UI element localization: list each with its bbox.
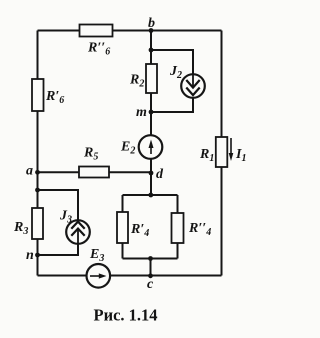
wire left rail bbox=[37, 31, 39, 276]
svg-text:R5: R5 bbox=[83, 146, 98, 163]
current arrow I1 bbox=[229, 138, 234, 161]
wire m to d bbox=[150, 112, 152, 173]
svg-text:b: b bbox=[148, 16, 155, 31]
junction R4 top bbox=[148, 193, 153, 198]
resistor R'6 bbox=[32, 79, 44, 111]
node n junction dot bbox=[35, 253, 40, 258]
node d junction dot bbox=[149, 171, 154, 176]
wire J2 branch loop bbox=[151, 50, 193, 112]
wire a to d bbox=[38, 171, 152, 173]
node c junction dot bbox=[148, 273, 153, 278]
svg-text:R1: R1 bbox=[199, 147, 214, 164]
junction R4 bottom bbox=[148, 256, 153, 261]
svg-text:R′′6: R′′6 bbox=[87, 41, 110, 58]
svg-text:J3: J3 bbox=[59, 209, 72, 226]
wire right rail bbox=[221, 31, 223, 276]
svg-text:E3: E3 bbox=[89, 247, 104, 264]
source J2 circle bbox=[181, 74, 205, 98]
resistor R'4 bbox=[117, 212, 128, 243]
node a junction dot bbox=[35, 170, 40, 175]
svg-text:c: c bbox=[147, 277, 154, 292]
resistor R3 bbox=[32, 208, 43, 239]
resistor R''6 bbox=[80, 25, 113, 37]
svg-text:d: d bbox=[156, 167, 164, 182]
wire J3 branch loop bbox=[38, 190, 79, 255]
svg-text:R3: R3 bbox=[13, 220, 28, 237]
source E3 arrow bbox=[90, 273, 107, 278]
resistor R1 bbox=[216, 137, 228, 167]
source E2 circle bbox=[139, 135, 163, 159]
node b junction dot bbox=[149, 28, 154, 33]
source E3 circle bbox=[87, 264, 111, 288]
svg-text:R′′4: R′′4 bbox=[188, 221, 211, 238]
source J2 chevrons bbox=[186, 50, 199, 95]
wire R4 right branch bbox=[177, 195, 179, 259]
svg-text:m: m bbox=[136, 105, 147, 120]
wire bottom rail bbox=[38, 275, 222, 277]
wire top b rail bbox=[38, 30, 222, 32]
svg-text:J2: J2 bbox=[169, 64, 182, 81]
wire to node c bbox=[150, 259, 152, 276]
resistor R''4 bbox=[172, 213, 184, 243]
wire R4 left branch bbox=[122, 195, 124, 259]
source E2 arrow bbox=[149, 140, 154, 155]
svg-text:R2: R2 bbox=[129, 73, 144, 90]
node m junction dot bbox=[149, 110, 154, 115]
svg-text:E2: E2 bbox=[120, 140, 135, 157]
source J3 chevrons bbox=[71, 222, 84, 244]
svg-text:a: a bbox=[26, 164, 33, 179]
source J3 circle bbox=[66, 220, 90, 244]
wire R4 top bar bbox=[123, 194, 178, 196]
svg-text:I1: I1 bbox=[235, 147, 246, 164]
junction below b bbox=[149, 48, 154, 53]
junction below a bbox=[35, 188, 40, 193]
wire d to R4 pair bbox=[150, 173, 152, 195]
resistor R5 bbox=[79, 167, 109, 178]
wire b to m branch bbox=[150, 31, 152, 113]
svg-text:R′4: R′4 bbox=[130, 222, 149, 239]
svg-text:R′6: R′6 bbox=[45, 89, 64, 106]
svg-text:n: n bbox=[26, 248, 34, 263]
resistor R2 bbox=[146, 64, 157, 93]
svg-text:Рис. 1.14: Рис. 1.14 bbox=[94, 306, 158, 325]
wire R4 bottom bar bbox=[123, 258, 178, 260]
